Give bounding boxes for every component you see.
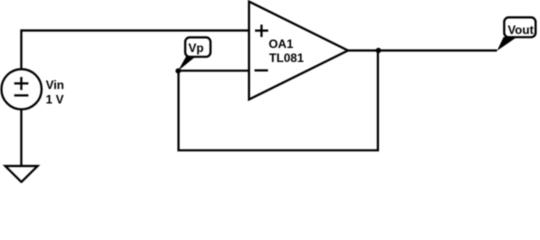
svg-text:1 V: 1 V xyxy=(46,93,64,107)
svg-text:Vout: Vout xyxy=(508,23,534,37)
svg-text:OA1: OA1 xyxy=(269,37,294,51)
svg-text:TL081: TL081 xyxy=(269,51,304,65)
svg-text:Vp: Vp xyxy=(188,41,203,55)
svg-text:Vin: Vin xyxy=(46,78,64,92)
